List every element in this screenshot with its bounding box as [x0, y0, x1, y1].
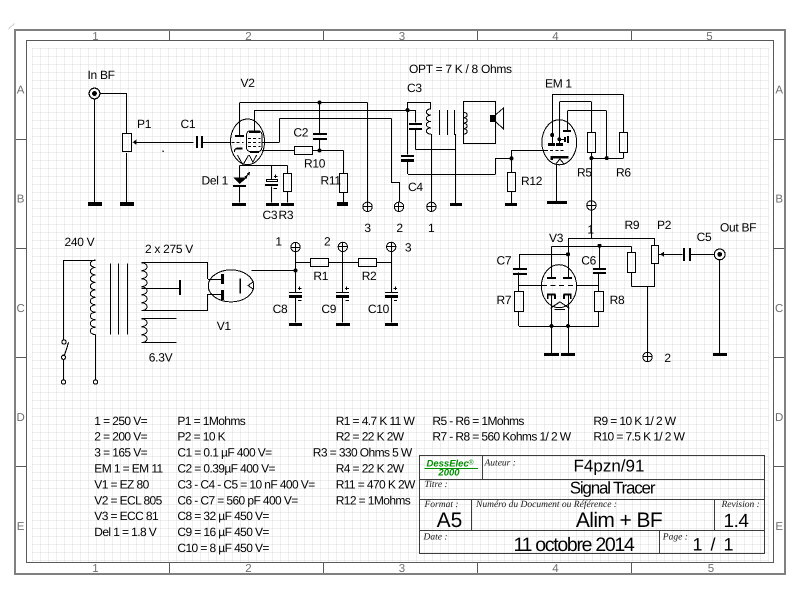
svg-text:V1: V1	[217, 319, 232, 333]
svg-text:F4pzn/91: F4pzn/91	[574, 457, 645, 476]
svg-text:3 = 165 V=: 3 = 165 V=	[94, 446, 147, 460]
svg-text:1: 1	[587, 223, 594, 237]
svg-text:Alim + BF: Alim + BF	[576, 509, 662, 532]
svg-text:R12 = 1Mohms: R12 = 1Mohms	[336, 493, 411, 507]
svg-text:In BF: In BF	[88, 68, 115, 82]
svg-text:R9 = 10 K 1/ 2 W: R9 = 10 K 1/ 2 W	[593, 414, 676, 428]
svg-text:A5: A5	[437, 509, 463, 532]
svg-text:3: 3	[364, 221, 371, 235]
svg-text:D: D	[16, 412, 24, 424]
svg-text:1 = 250 V=: 1 = 250 V=	[94, 414, 147, 428]
svg-text:Signal Tracer: Signal Tracer	[570, 479, 656, 498]
svg-text:R2 = 22 K 2W: R2 = 22 K 2W	[336, 430, 405, 444]
svg-text:V2: V2	[241, 76, 256, 90]
svg-text:2: 2	[324, 235, 331, 249]
svg-text:2: 2	[396, 221, 403, 235]
svg-text:B: B	[17, 194, 25, 206]
svg-text:EM 1 = EM 11: EM 1 = EM 11	[94, 462, 163, 476]
svg-text:C8: C8	[273, 302, 288, 316]
svg-text:R3 = 330 Ohms 5 W: R3 = 330 Ohms 5 W	[313, 446, 413, 460]
svg-text:R7 - R8 = 560 Kohms 1/ 2 W: R7 - R8 = 560 Kohms 1/ 2 W	[432, 430, 571, 444]
svg-text:P2: P2	[657, 218, 672, 232]
svg-text:1: 1	[92, 563, 98, 575]
svg-text:2: 2	[245, 31, 251, 43]
svg-text:R10 = 7.5 K 1/ 2 W: R10 = 7.5 K 1/ 2 W	[593, 430, 685, 444]
svg-text:C10 = 8 µF 450 V=: C10 = 8 µF 450 V=	[177, 541, 269, 555]
svg-text:Del 1 = 1.8 V: Del 1 = 1.8 V	[94, 525, 157, 539]
svg-text:2 = 200 V=: 2 = 200 V=	[94, 430, 147, 444]
svg-text:4: 4	[552, 31, 559, 43]
svg-text:2: 2	[245, 563, 251, 575]
svg-text:C9 = 16 µF 450 V=: C9 = 16 µF 450 V=	[177, 525, 269, 539]
svg-text:®: ®	[469, 460, 475, 467]
svg-text:R10: R10	[304, 157, 326, 171]
svg-text:C3 - C4 - C5 = 10 nF 400 V=: C3 - C4 - C5 = 10 nF 400 V=	[177, 477, 315, 491]
svg-text:C3: C3	[407, 81, 422, 95]
svg-text:Out BF: Out BF	[720, 221, 756, 235]
svg-text:C1 = 0.1 µF 400 V=: C1 = 0.1 µF 400 V=	[177, 446, 272, 460]
svg-text:OPT = 7 K / 8 Ohms: OPT = 7 K / 8 Ohms	[409, 62, 512, 76]
svg-text:R7: R7	[497, 293, 512, 307]
svg-text:C4: C4	[408, 180, 423, 194]
svg-text:4: 4	[552, 563, 559, 575]
svg-text:R6: R6	[616, 166, 631, 180]
svg-text:C9: C9	[321, 302, 336, 316]
svg-text:2000: 2000	[437, 468, 460, 479]
svg-text:C: C	[16, 303, 24, 315]
svg-text:1: 1	[92, 31, 98, 43]
svg-text:C7: C7	[497, 253, 512, 267]
svg-text:C6: C6	[581, 253, 596, 267]
svg-text:2 x 275 V: 2 x 275 V	[145, 242, 193, 256]
svg-text:R1 = 4.7 K 11 W: R1 = 4.7 K 11 W	[336, 414, 416, 428]
svg-text:C1: C1	[181, 117, 196, 131]
svg-text:240 V: 240 V	[65, 235, 95, 249]
svg-text:R5 - R6 = 1Mohms: R5 - R6 = 1Mohms	[432, 414, 524, 428]
svg-text:P2 = 10 K: P2 = 10 K	[177, 430, 225, 444]
svg-text:5: 5	[706, 31, 712, 43]
svg-text:C3: C3	[263, 208, 278, 222]
svg-text:E: E	[17, 521, 25, 533]
svg-text:1: 1	[275, 235, 282, 249]
svg-text:P1 = 1Mohms: P1 = 1Mohms	[177, 414, 245, 428]
svg-text:C10: C10	[368, 302, 390, 316]
svg-text:V3: V3	[549, 231, 564, 245]
svg-text:3: 3	[405, 241, 412, 255]
svg-text:Revision :: Revision :	[721, 500, 760, 510]
svg-text:D: D	[775, 412, 783, 424]
svg-text:5: 5	[708, 563, 714, 575]
svg-text:R11 = 470 K 2W: R11 = 470 K 2W	[336, 477, 416, 491]
svg-text:R5: R5	[577, 166, 592, 180]
svg-text:R8: R8	[610, 293, 625, 307]
svg-text:3: 3	[399, 563, 405, 575]
svg-text:C: C	[775, 303, 783, 315]
svg-text:C5: C5	[697, 230, 712, 244]
svg-text:3: 3	[399, 31, 405, 43]
svg-text:11 octobre 2014: 11 octobre 2014	[514, 534, 635, 556]
svg-text:6.3V: 6.3V	[149, 351, 173, 365]
svg-text:B: B	[775, 194, 783, 206]
svg-text:P1: P1	[137, 117, 152, 131]
svg-text:1 / 1: 1 / 1	[693, 535, 736, 555]
svg-text:A: A	[17, 85, 25, 97]
svg-text:R1: R1	[313, 269, 328, 283]
svg-text:R12: R12	[521, 174, 543, 188]
svg-text:Date :: Date :	[423, 533, 448, 543]
svg-text:R2: R2	[362, 269, 377, 283]
svg-text:R11: R11	[321, 174, 342, 188]
svg-text:C6 - C7 = 560 pF 400 V=: C6 - C7 = 560 pF 400 V=	[177, 493, 298, 507]
svg-text:R4 = 22 K 2W: R4 = 22 K 2W	[336, 462, 405, 476]
svg-text:R9: R9	[625, 218, 640, 232]
svg-text:EM 1: EM 1	[545, 77, 572, 91]
svg-text:Del 1: Del 1	[202, 174, 229, 188]
svg-text:R3: R3	[279, 208, 294, 222]
svg-text:Auteur :: Auteur :	[484, 459, 516, 469]
svg-text:C2: C2	[293, 126, 308, 140]
svg-text:V2 = ECL 805: V2 = ECL 805	[94, 493, 162, 507]
svg-text:1.4: 1.4	[724, 511, 750, 532]
svg-text:Page :: Page :	[662, 533, 688, 543]
svg-text:V1 = EZ 80: V1 = EZ 80	[94, 477, 149, 491]
svg-text:C2 = 0.39µF 400 V=: C2 = 0.39µF 400 V=	[177, 462, 275, 476]
svg-text:2: 2	[664, 351, 671, 365]
svg-text:C8 = 32 µF 450 V=: C8 = 32 µF 450 V=	[177, 509, 269, 523]
svg-text:V3 = ECC 81: V3 = ECC 81	[94, 509, 159, 523]
svg-text:E: E	[775, 521, 783, 533]
svg-text:1: 1	[428, 221, 435, 235]
svg-text:Titre :: Titre :	[425, 480, 448, 490]
svg-text:A: A	[775, 85, 783, 97]
